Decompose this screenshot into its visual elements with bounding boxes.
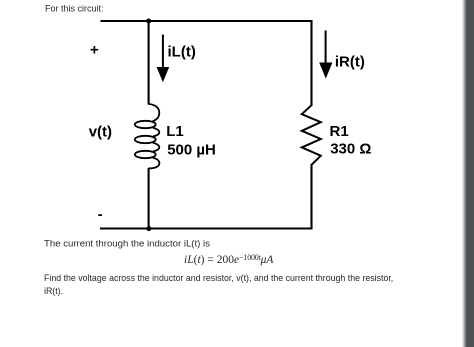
resistor R1 zigzag (302, 105, 321, 165)
node: junction dot top (146, 19, 151, 24)
equation: iL(t) = 200e^-1000t uA (184, 252, 273, 266)
text: The current through the inductor iL(t) is (44, 240, 210, 250)
svg-text:R1: R1 (330, 123, 349, 140)
wire: inductor branch vertical lower (148, 168, 150, 229)
inductor L1 coil: curl 1 (135, 121, 156, 128)
wire: right branch vertical upper (to R1 top) (310, 20, 312, 106)
title: For this circuit: (45, 5, 104, 14)
right window edge gray bar (462, 0, 474, 347)
wire: bottom horizontal (node between - terminal, L1 and R1) (100, 227, 312, 229)
inductor L1 coil: lead-in arc (149, 104, 160, 121)
svg-text:iR(t): iR(t) (335, 53, 365, 70)
svg-text:330 Ω: 330 Ω (330, 141, 371, 158)
current arrow iR(t): head (319, 63, 332, 79)
inductor L1 coil: lead-out arc (149, 158, 160, 169)
inductor L1 coil: arc 3 (153, 143, 160, 152)
wire: top horizontal (node between + terminal, L1 and R1) (101, 20, 312, 22)
svg-text:L1: L1 (166, 123, 184, 140)
svg-text:500 µH: 500 µH (167, 142, 216, 159)
current arrow iR(t): shaft (325, 31, 327, 64)
wire: inductor branch vertical upper (148, 21, 150, 105)
svg-text:-: - (98, 206, 103, 223)
inductor L1 coil: curl 3 (135, 151, 156, 158)
svg-text:iL(t): iL(t) (168, 44, 196, 61)
current arrow iL(t): shaft (162, 35, 164, 68)
current arrow iL(t): head (157, 67, 170, 82)
text: Find the voltage paragraph line 2 (44, 288, 63, 297)
svg-text:v(t): v(t) (89, 124, 112, 141)
inductor L1 coil: curl 2 (135, 136, 156, 143)
wire: right branch vertical lower (R1 bottom to bottom wire) (310, 164, 312, 230)
text: Find the voltage paragraph line 1 (44, 275, 393, 284)
node: junction dot bottom (146, 226, 151, 231)
inductor L1 coil: arc 2 (153, 128, 160, 137)
svg-text:+: + (90, 42, 99, 59)
